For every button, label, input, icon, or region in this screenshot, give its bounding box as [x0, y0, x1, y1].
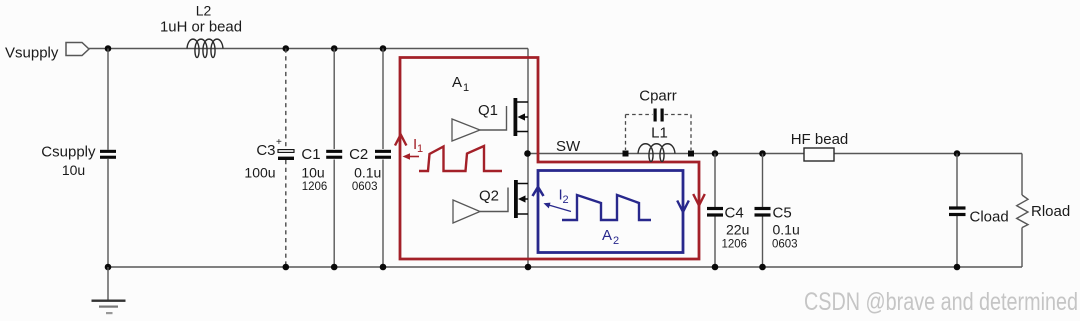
node: C3 top [283, 45, 290, 52]
svg-text:C4: C4 [725, 205, 744, 222]
svg-text:CSDN @brave and determined: CSDN @brave and determined [804, 288, 1078, 316]
op-amp driver of Q2 [453, 200, 480, 223]
wire: I1 current waveform [419, 146, 502, 171]
inductor L2 [160, 3, 242, 58]
svg-text:1: 1 [417, 143, 423, 155]
svg-text:L1: L1 [651, 125, 668, 142]
node: ground rail left [105, 264, 112, 271]
connector Vsupply [66, 43, 89, 56]
node: C1 top [331, 45, 338, 52]
svg-text:+: + [276, 137, 282, 148]
wire: right edge vertical Rload branch [1021, 154, 1023, 196]
wire: C2 branch [382, 49, 384, 150]
svg-text:C3: C3 [256, 142, 275, 159]
svg-text:A: A [602, 227, 612, 244]
node: C1 bottom [331, 264, 338, 271]
svg-text:Vsupply: Vsupply [5, 45, 59, 62]
node: L1 left terminal [623, 151, 629, 157]
svg-text:1206: 1206 [722, 239, 748, 251]
wire: MOSFET chain vertical [527, 49, 529, 268]
node: input junction [105, 45, 112, 52]
wire: C3 dashed branch lower [285, 160, 287, 267]
node: L1 right terminal [688, 151, 694, 157]
wire: C3 dashed branch upper [285, 49, 287, 149]
wire: I2 pointer arrow [544, 203, 572, 212]
svg-text:Q2: Q2 [479, 188, 499, 205]
svg-text:Csupply: Csupply [41, 144, 96, 161]
capacitor C1 [301, 146, 342, 193]
capacitor C3 (electrolytic) [244, 137, 294, 181]
capacitor Csupply [41, 144, 116, 179]
svg-text:SW: SW [556, 138, 581, 155]
ferrite bead HF bead [791, 131, 849, 161]
wire: Cload branch [956, 154, 958, 207]
wire: C4 branch [714, 154, 716, 208]
wire: SW line to right edge [527, 153, 1022, 155]
svg-text:Q1: Q1 [478, 102, 498, 119]
wire: top rail Vsupply to Q1 drain [89, 48, 528, 50]
wire: blue down arrow on loop A2 right edge [677, 201, 689, 213]
svg-text:2: 2 [563, 194, 569, 206]
wire: Csupply branch lower [107, 159, 109, 267]
wire: C5 branch [762, 154, 764, 208]
svg-text:0603: 0603 [352, 181, 378, 193]
svg-text:C5: C5 [773, 205, 792, 222]
node: C5 top [759, 150, 766, 157]
capacitor Cload [949, 206, 1009, 225]
svg-text:Cparr: Cparr [639, 88, 677, 105]
ground [92, 267, 126, 314]
loop A1 (red current loop) [400, 58, 699, 260]
transistor Q1 [478, 98, 528, 136]
svg-text:Rload: Rload [1031, 203, 1070, 220]
svg-text:10u: 10u [301, 165, 324, 181]
node: C4 top [712, 150, 719, 157]
inductor L1 [638, 125, 675, 162]
node A1 label [452, 74, 469, 94]
wire: Csupply branch upper [107, 49, 109, 150]
transistor Q2 [479, 180, 528, 218]
node: C5 bottom [759, 264, 766, 271]
svg-text:1: 1 [463, 82, 469, 94]
wire: I1 pointer arrow [403, 153, 420, 159]
svg-text:10u: 10u [62, 162, 85, 178]
svg-text:22u: 22u [726, 222, 749, 238]
svg-text:A: A [452, 74, 462, 91]
node: C4 bottom [712, 264, 719, 271]
svg-text:2: 2 [613, 235, 619, 247]
node: C3 bottom [283, 264, 290, 271]
wire: I2 up arrow on loop A2 [533, 187, 544, 196]
node: C2 bottom [380, 264, 387, 271]
svg-text:0.1u: 0.1u [354, 165, 381, 181]
op-amp driver of Q1 [452, 119, 480, 141]
svg-text:C2: C2 [349, 146, 368, 163]
svg-text:100u: 100u [244, 165, 275, 181]
node SW [524, 150, 531, 157]
node I1 label [413, 136, 423, 155]
svg-text:HF bead: HF bead [791, 131, 849, 148]
node: Q2 source ground [525, 264, 532, 271]
capacitor C2 [349, 146, 391, 193]
loop A2 (blue current loop) [538, 171, 683, 253]
wire: bottom ground rail [108, 266, 1022, 268]
wire: C1 branch [333, 49, 335, 150]
resistor Rload [1017, 195, 1071, 228]
node A2 label [602, 227, 619, 247]
svg-text:1206: 1206 [302, 181, 328, 193]
svg-text:L2: L2 [196, 3, 212, 19]
node: Cload top [954, 150, 961, 157]
svg-text:1uH or bead: 1uH or bead [160, 19, 242, 36]
svg-text:0.1u: 0.1u [773, 222, 800, 238]
svg-text:Cload: Cload [970, 209, 1009, 226]
svg-text:C1: C1 [301, 146, 320, 163]
node: C2 top [380, 45, 387, 52]
node: Cload bottom [954, 264, 961, 271]
svg-text:0603: 0603 [772, 239, 798, 251]
capacitor Cparr (dashed branch) [626, 88, 692, 151]
wire: red down arrow near C4 [693, 194, 705, 206]
capacitor C5 [755, 205, 800, 251]
wire: I1 up arrow on loop A1 [395, 135, 406, 146]
capacitor C4 [707, 205, 749, 251]
node I2 label [559, 187, 569, 207]
wire: I2 current waveform [562, 195, 651, 220]
